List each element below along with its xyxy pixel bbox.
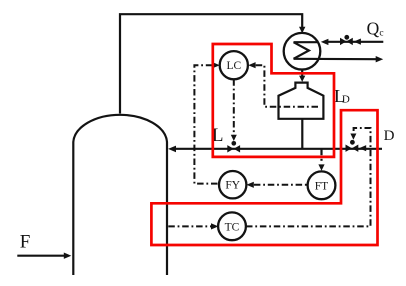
svg-text:LC: LC <box>226 60 241 72</box>
svg-text:c: c <box>379 29 383 39</box>
svg-text:TC: TC <box>225 221 240 233</box>
svg-text:D: D <box>384 128 395 144</box>
svg-text:FY: FY <box>225 180 240 192</box>
svg-text:F: F <box>20 232 31 253</box>
svg-text:D: D <box>342 94 350 106</box>
svg-text:FT: FT <box>315 180 328 192</box>
svg-text:Q: Q <box>367 18 380 38</box>
